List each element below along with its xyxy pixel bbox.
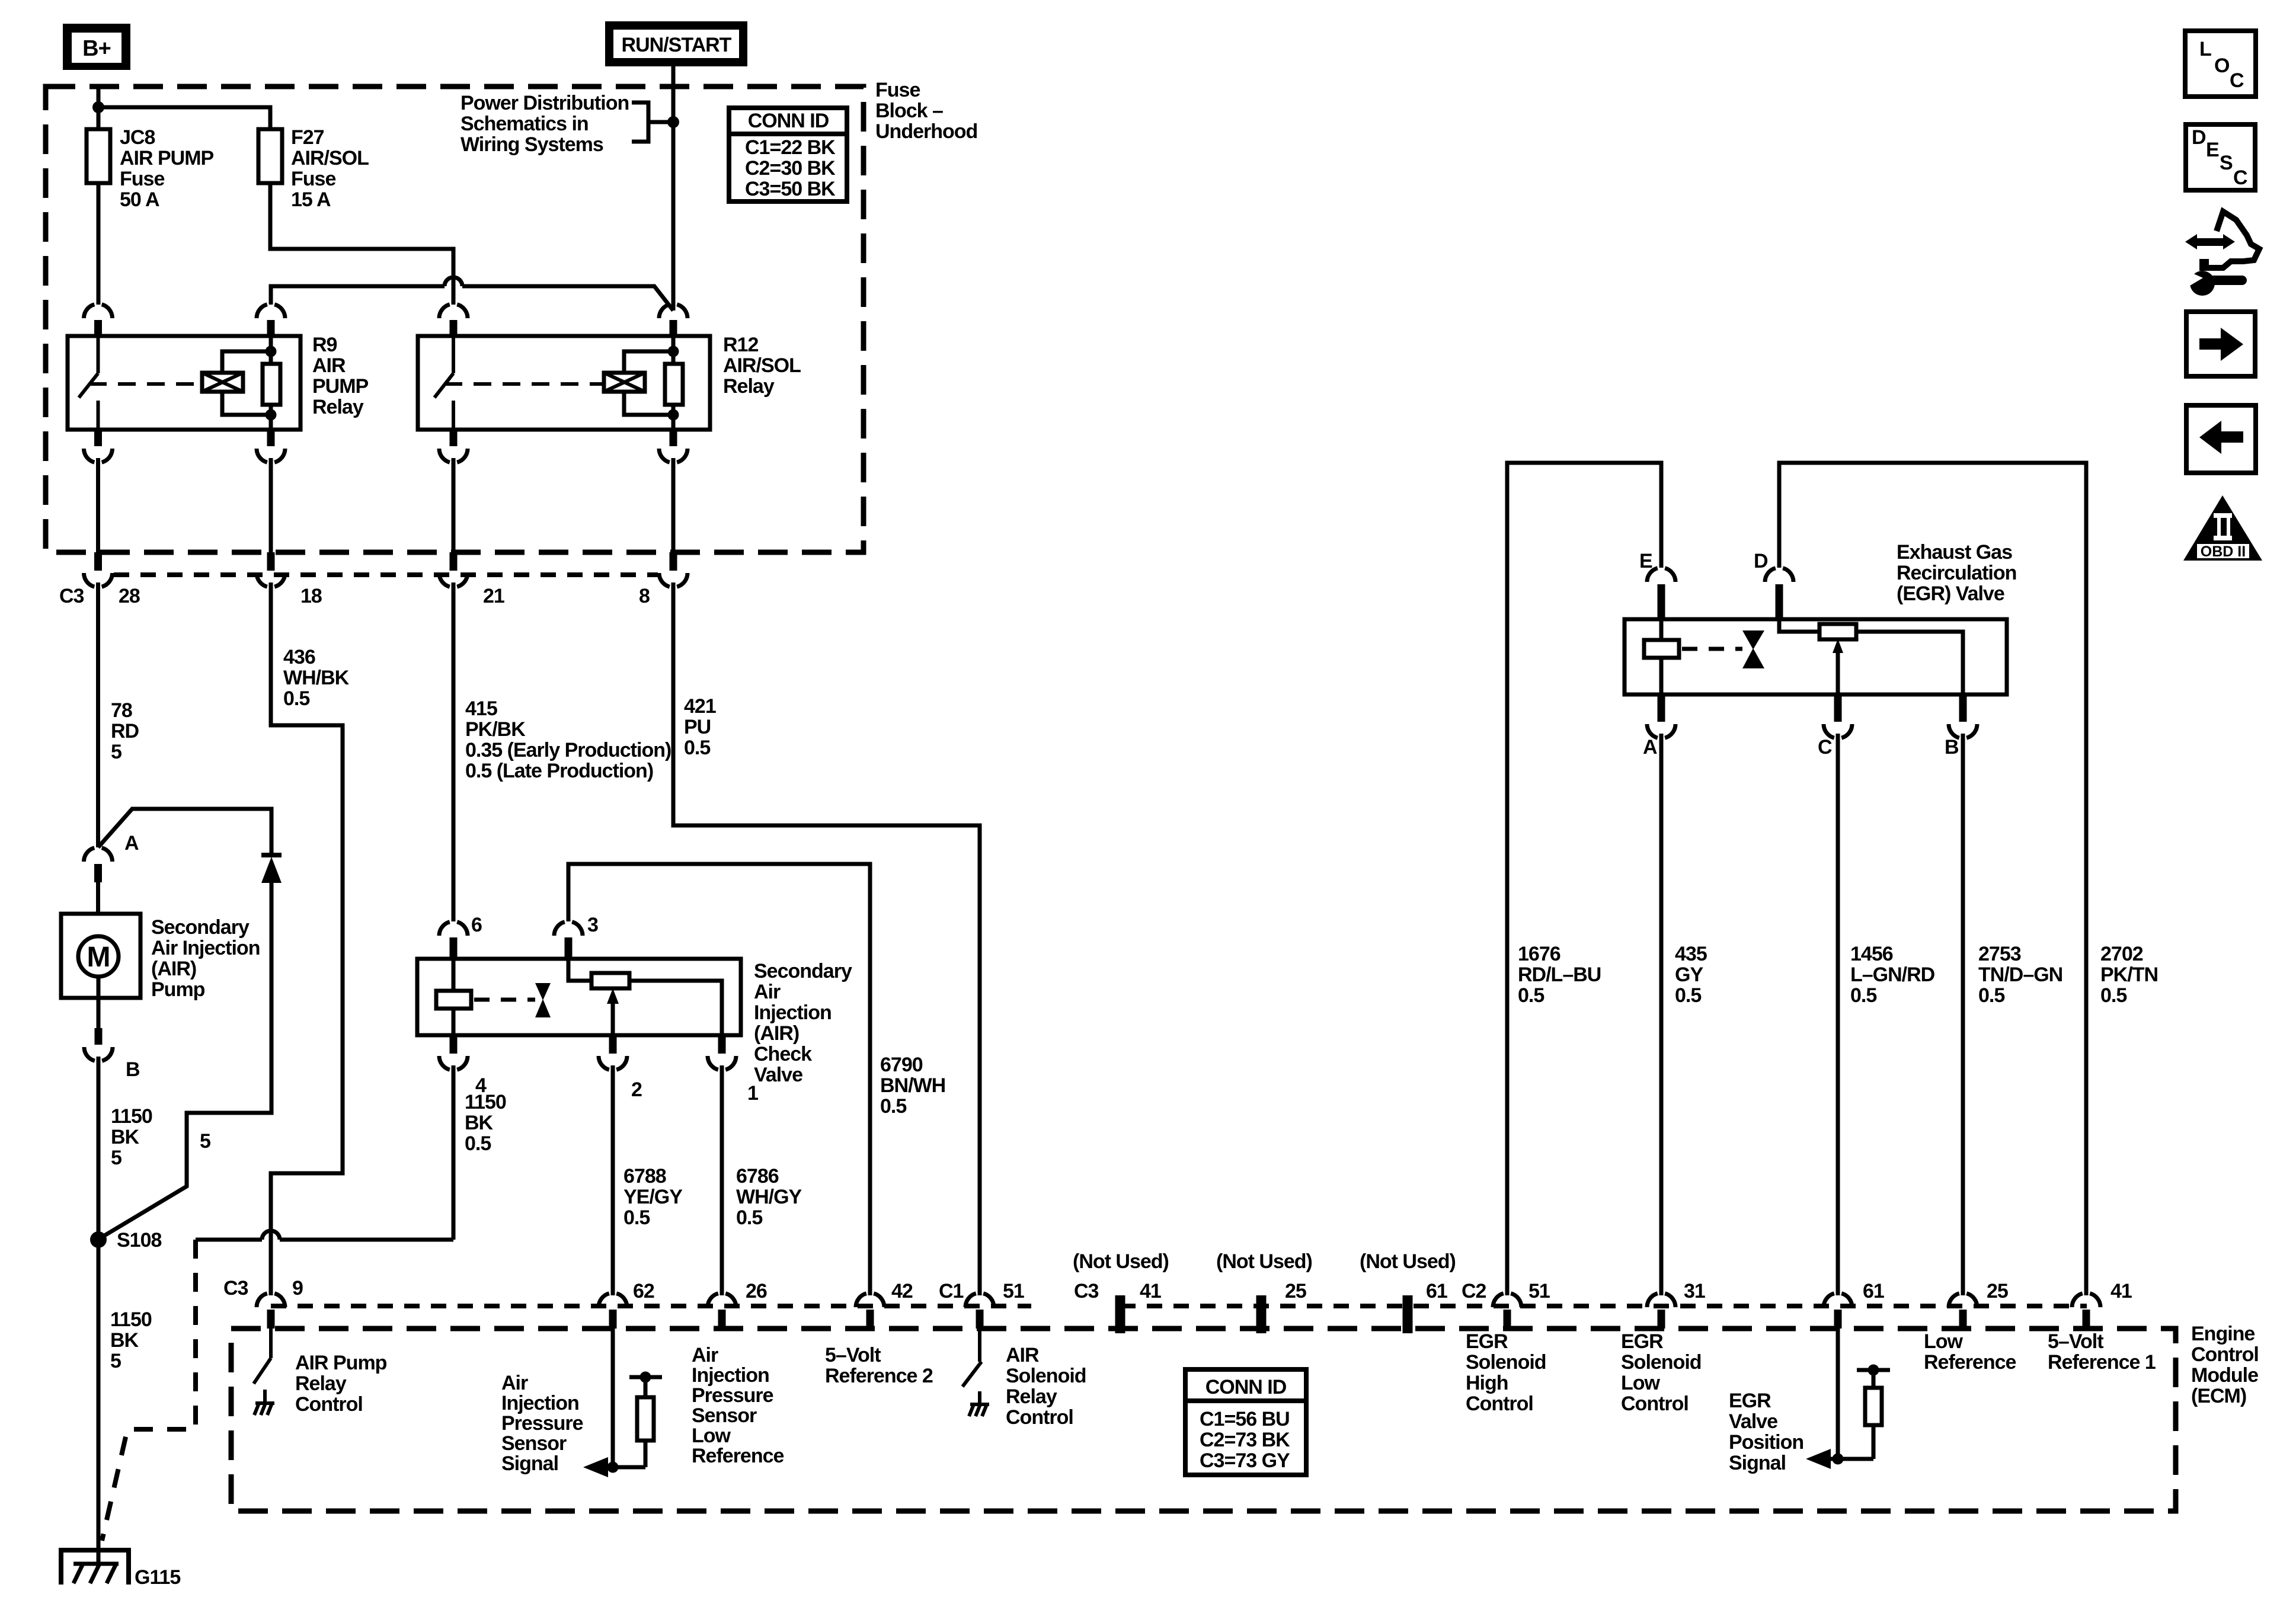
wire B+ to JC8 [97, 107, 101, 129]
ECM pin 31 [1647, 1294, 1675, 1329]
svg-text:YE/GY: YE/GY [623, 1186, 683, 1208]
ECM pressure sensor input network [583, 1329, 662, 1477]
svg-text:PK/TN: PK/TN [2100, 964, 2158, 986]
C3 row pin 28 [84, 552, 113, 587]
label wire 1456 L-GN/RD [1850, 943, 1935, 1007]
R9 coil top pin connector [257, 305, 285, 318]
svg-text:Control: Control [1621, 1393, 1689, 1415]
ECM pin C3 9 [257, 1294, 285, 1329]
svg-text:Reference: Reference [692, 1445, 784, 1467]
R9 actuator dashed link [89, 382, 200, 386]
svg-text:Air: Air [501, 1372, 528, 1394]
label F27 fuse [291, 126, 369, 211]
svg-text:Relay: Relay [312, 396, 364, 418]
ECM EGR position sensor network [1806, 1329, 1890, 1469]
svg-text:B: B [126, 1058, 140, 1081]
svg-text:(Not Used): (Not Used) [1360, 1250, 1456, 1273]
svg-text:5: 5 [200, 1130, 210, 1153]
label EGR valve [1897, 541, 2016, 605]
svg-text:0.5: 0.5 [283, 687, 309, 710]
svg-text:C2=73 BK: C2=73 BK [1200, 1429, 1290, 1451]
icon scan tool wrench [2185, 212, 2259, 296]
R12 switch [434, 336, 453, 430]
svg-text:9: 9 [292, 1277, 303, 1299]
svg-text:31: 31 [1684, 1280, 1705, 1302]
svg-text:C3: C3 [1074, 1280, 1099, 1302]
svg-text:5: 5 [111, 741, 121, 763]
R12 coil element [604, 351, 673, 415]
label wire 2753 TN/D-GN [1978, 943, 2062, 1007]
power feed RUN/START [605, 21, 747, 66]
svg-text:Position: Position [1729, 1431, 1803, 1454]
svg-text:Injection: Injection [501, 1392, 579, 1414]
svg-text:PUMP: PUMP [312, 375, 369, 398]
svg-text:AIR: AIR [1006, 1344, 1039, 1366]
svg-text:RUN/START: RUN/START [622, 34, 732, 56]
label Secondary Air Injection Pump [151, 916, 260, 1001]
ECM air pump relay control switch [254, 1329, 274, 1415]
svg-text:61: 61 [1863, 1280, 1884, 1302]
ECM pin 26 [708, 1294, 736, 1329]
label EGR Valve Position Signal [1729, 1390, 1803, 1474]
svg-text:C2=30 BK: C2=30 BK [745, 157, 836, 180]
svg-text:Sensor: Sensor [692, 1404, 757, 1427]
svg-text:A: A [1643, 736, 1657, 758]
svg-text:L–GN/RD: L–GN/RD [1850, 964, 1935, 986]
svg-text:Reference 2: Reference 2 [825, 1365, 933, 1387]
svg-text:Engine: Engine [2191, 1323, 2255, 1345]
conn id table ECM [1185, 1369, 1306, 1475]
svg-text:Solenoid: Solenoid [1621, 1351, 1702, 1374]
node B+ junction [92, 101, 104, 113]
svg-text:D: D [2192, 126, 2206, 149]
label Air Injection Pressure Sensor Signal [501, 1372, 583, 1475]
svg-text:EGR: EGR [1621, 1330, 1663, 1353]
svg-text:28: 28 [119, 585, 140, 607]
svg-text:CONN ID: CONN ID [1205, 1376, 1287, 1398]
svg-text:15 A: 15 A [291, 188, 331, 211]
svg-text:(Not Used): (Not Used) [1216, 1250, 1312, 1273]
R9 switch top pin connector [84, 305, 113, 318]
valve pin 4 connector [439, 1035, 468, 1240]
svg-text:Air Injection: Air Injection [151, 937, 260, 959]
C3 connector row dotted line [114, 572, 658, 577]
svg-text:Pressure: Pressure [692, 1384, 773, 1407]
svg-text:C1=22 BK: C1=22 BK [745, 136, 836, 159]
svg-text:1150: 1150 [111, 1105, 152, 1128]
ECM dashed box [231, 1329, 2176, 1511]
label wire 421 PU 0.5 [684, 695, 716, 759]
diode CR [261, 855, 282, 883]
valve actuator dashes [474, 998, 535, 1002]
svg-text:C2: C2 [1462, 1280, 1486, 1302]
EGR valve box [1625, 619, 2007, 694]
svg-text:435: 435 [1675, 943, 1707, 965]
svg-text:C3: C3 [59, 585, 84, 607]
valve symbol bowtie [535, 983, 551, 1017]
svg-text:GY: GY [1675, 964, 1703, 986]
svg-text:RD: RD [111, 720, 139, 742]
svg-text:AIR/SOL: AIR/SOL [723, 354, 801, 377]
wire RUN/START to R12 coil [671, 122, 676, 311]
svg-text:WH/BK: WH/BK [283, 667, 350, 689]
svg-text:C3: C3 [223, 1277, 248, 1299]
svg-text:Fuse: Fuse [875, 79, 920, 101]
svg-text:Fuse: Fuse [291, 168, 335, 190]
C3 row pin 21 [439, 552, 468, 587]
svg-text:(Not Used): (Not Used) [1073, 1250, 1169, 1273]
R9 coil resistor [263, 336, 280, 430]
svg-text:21: 21 [483, 585, 504, 607]
svg-text:Fuse: Fuse [120, 168, 164, 190]
svg-text:AIR/SOL: AIR/SOL [291, 147, 369, 169]
label R12 relay [723, 334, 801, 398]
wire 6790 from pin 3 [568, 864, 870, 1295]
label wire 6788 YE/GY 0.5 [623, 1165, 683, 1229]
label wire 436 WH/BK 0.5 [283, 646, 350, 710]
svg-text:(AIR): (AIR) [151, 958, 196, 980]
svg-text:Injection: Injection [754, 1001, 832, 1024]
svg-text:CONN ID: CONN ID [748, 110, 829, 132]
svg-text:BK: BK [111, 1126, 140, 1148]
wire F27 to R12 switch [270, 183, 453, 305]
svg-text:RD/L–BU: RD/L–BU [1518, 964, 1601, 986]
svg-text:415: 415 [465, 697, 497, 720]
svg-text:Schematics in: Schematics in [461, 113, 589, 135]
svg-text:6790: 6790 [880, 1054, 923, 1076]
ECM pin 41 [2072, 1294, 2100, 1329]
svg-text:0.35 (Early Production): 0.35 (Early Production) [465, 739, 671, 761]
svg-text:R9: R9 [312, 334, 337, 356]
motor M circle [78, 936, 119, 977]
icon LOC box [2185, 31, 2256, 97]
label wire 1150 BK 5 upper [111, 1105, 152, 1169]
svg-text:0.5: 0.5 [465, 1132, 491, 1155]
svg-text:Module: Module [2191, 1364, 2258, 1387]
svg-text:B: B [1945, 736, 1959, 758]
EGR pin E connector [1647, 568, 1675, 619]
conn id table fuse block [729, 108, 847, 201]
AIR pump motor box [61, 914, 140, 998]
ECM connector dotted row right [1120, 1304, 2087, 1308]
svg-text:6788: 6788 [623, 1165, 666, 1188]
svg-text:Relay: Relay [295, 1372, 347, 1395]
EGR pin C connector [1824, 694, 1852, 1295]
R12 switch top pin connector [439, 305, 468, 318]
svg-text:C1=56 BU: C1=56 BU [1200, 1408, 1290, 1430]
icon OBD II triangle [2183, 495, 2262, 561]
svg-text:26: 26 [746, 1280, 767, 1302]
svg-text:AIR PUMP: AIR PUMP [120, 147, 214, 169]
label 5-Volt Reference 1 [2048, 1330, 2156, 1374]
svg-text:2753: 2753 [1978, 943, 2021, 965]
svg-text:E: E [1639, 550, 1652, 572]
label AIR Solenoid Relay Control [1006, 1344, 1086, 1429]
svg-text:0.5: 0.5 [1978, 984, 2004, 1007]
svg-text:2: 2 [631, 1078, 642, 1101]
svg-text:AIR Pump: AIR Pump [295, 1352, 387, 1374]
svg-text:AIR: AIR [312, 354, 346, 377]
svg-text:25: 25 [1285, 1280, 1306, 1302]
svg-text:BK: BK [110, 1329, 139, 1352]
svg-text:B+: B+ [82, 36, 111, 61]
svg-text:(AIR): (AIR) [754, 1022, 799, 1045]
svg-text:(EGR) Valve: (EGR) Valve [1897, 582, 2004, 605]
label Power Distribution note [461, 92, 629, 156]
label wire 1676 RD/L-BU [1518, 943, 1601, 1007]
svg-text:62: 62 [633, 1280, 654, 1302]
label EGR Solenoid High Control [1466, 1330, 1546, 1415]
svg-text:PK/BK: PK/BK [465, 718, 526, 741]
fuse block underhood dashed box [46, 87, 864, 552]
wires relays to C3 connector row [98, 458, 674, 555]
R9 bottom pin connectors [84, 430, 286, 462]
svg-text:42: 42 [891, 1280, 913, 1302]
svg-text:0.5: 0.5 [1675, 984, 1701, 1007]
label Air Injection Pressure Sensor Low Reference [692, 1344, 784, 1467]
relay R9 box [68, 336, 300, 430]
svg-text:8: 8 [639, 585, 650, 607]
EGR pin B connector [1949, 694, 1977, 1295]
wire B+ to F27 [98, 107, 270, 129]
label AIR Pump Relay Control [295, 1352, 387, 1416]
valve wiper arrow [607, 988, 619, 1035]
ECM pin C1 51 [965, 1294, 994, 1329]
label Low Reference [1924, 1330, 2016, 1374]
svg-text:5: 5 [110, 1350, 121, 1372]
svg-text:Reference 1: Reference 1 [2048, 1351, 2156, 1374]
R12 coil resistor [665, 336, 683, 430]
node RUN/START junction [667, 116, 679, 128]
C3 row pin 18 [257, 552, 285, 587]
label wire 78 RD 5 [111, 699, 139, 763]
svg-text:BN/WH: BN/WH [880, 1074, 945, 1097]
wire B+ stub [97, 87, 101, 107]
fuse JC8 [87, 129, 110, 183]
svg-text:6: 6 [471, 914, 482, 936]
svg-text:0.5: 0.5 [684, 737, 710, 759]
svg-text:Low: Low [692, 1425, 731, 1447]
svg-text:Block –: Block – [875, 100, 943, 122]
svg-text:Control: Control [1006, 1406, 1073, 1429]
wire 78 RD [96, 582, 100, 847]
bracket for power distribution note [632, 103, 673, 142]
svg-text:Injection: Injection [692, 1364, 769, 1387]
svg-text:F27: F27 [291, 126, 324, 149]
svg-text:1676: 1676 [1518, 943, 1560, 965]
icon DESC box [2186, 124, 2255, 190]
svg-text:0.5: 0.5 [1518, 984, 1544, 1007]
svg-text:C3=50 BK: C3=50 BK [745, 178, 836, 200]
svg-text:Underhood: Underhood [875, 120, 977, 143]
svg-text:C1: C1 [939, 1280, 964, 1302]
svg-text:WH/GY: WH/GY [736, 1186, 802, 1208]
label wire 1150 BK 5 lower [110, 1308, 152, 1372]
ECM pin 25 [1949, 1294, 1977, 1329]
pump pin A connector [84, 848, 113, 914]
svg-text:Signal: Signal [1729, 1452, 1786, 1474]
ECM not used stub 61 [1403, 1295, 1413, 1333]
labels C3 row [59, 585, 650, 607]
svg-text:421: 421 [684, 695, 716, 718]
svg-text:18: 18 [300, 585, 322, 607]
svg-text:Secondary: Secondary [754, 960, 852, 982]
wire valve pin4 ground link with hop [196, 1231, 453, 1240]
svg-text:S: S [2220, 152, 2233, 174]
pump pin B connector [84, 1028, 113, 1061]
svg-text:Signal: Signal [501, 1452, 558, 1475]
svg-text:M: M [87, 942, 110, 973]
wire 421 PU [673, 582, 980, 1295]
svg-text:D: D [1754, 550, 1768, 572]
svg-text:51: 51 [1528, 1280, 1550, 1302]
R12 coil top pin connector [659, 305, 687, 318]
ECM not used stub C3 41 [1115, 1295, 1125, 1333]
wire 415 PK/BK [452, 582, 456, 921]
wire RUN/START down [671, 66, 676, 122]
svg-text:OBD II: OBD II [2201, 543, 2246, 560]
svg-text:0.5: 0.5 [880, 1095, 906, 1118]
EGR pin A connector [1647, 694, 1675, 1295]
svg-text:Power Distribution: Power Distribution [461, 92, 629, 114]
svg-text:Exhaust Gas: Exhaust Gas [1897, 541, 2012, 564]
svg-text:5–Volt: 5–Volt [2048, 1330, 2103, 1353]
svg-text:G115: G115 [135, 1566, 180, 1589]
R9 switch [79, 336, 98, 430]
EGR actuator dashes [1682, 647, 1742, 651]
svg-text:Air: Air [692, 1344, 718, 1366]
ECM pin 42 [856, 1294, 884, 1329]
relay R12 box [418, 336, 710, 430]
svg-text:2702: 2702 [2100, 943, 2143, 965]
svg-text:1150: 1150 [110, 1308, 152, 1331]
svg-text:51: 51 [1003, 1280, 1024, 1302]
wire diode branch top [98, 809, 272, 855]
svg-text:High: High [1466, 1372, 1508, 1394]
svg-text:41: 41 [1140, 1280, 1161, 1302]
valve pin 6 connector [439, 922, 468, 959]
svg-text:Check: Check [754, 1043, 812, 1065]
svg-text:0.5 (Late Production): 0.5 (Late Production) [465, 760, 653, 782]
svg-text:JC8: JC8 [120, 126, 155, 149]
svg-text:BK: BK [465, 1112, 494, 1134]
label R9 relay [312, 334, 369, 418]
svg-text:EGR: EGR [1466, 1330, 1508, 1353]
svg-text:61: 61 [1426, 1280, 1447, 1302]
valve solenoid coil [436, 959, 471, 1035]
R12 bottom pin connectors [439, 430, 687, 462]
wire 436 WH/BK [271, 582, 343, 1295]
svg-text:C: C [1818, 736, 1832, 758]
svg-text:O: O [2214, 55, 2230, 77]
svg-text:A: A [124, 832, 139, 854]
label wire 415 PK/BK [465, 697, 671, 782]
svg-text:EGR: EGR [1729, 1390, 1771, 1412]
ECM pin C2 51 [1493, 1294, 1521, 1329]
svg-text:Low: Low [1924, 1330, 1964, 1353]
svg-text:0.5: 0.5 [736, 1206, 762, 1229]
fuse F27 [258, 129, 282, 183]
svg-text:1150: 1150 [465, 1091, 506, 1113]
svg-text:Valve: Valve [754, 1064, 802, 1086]
wire run/start branch to R9 coil with hop [271, 277, 673, 311]
svg-text:1456: 1456 [1850, 943, 1893, 965]
R9 coil element [202, 351, 271, 415]
svg-text:41: 41 [2110, 1280, 2132, 1302]
svg-text:Sensor: Sensor [501, 1432, 567, 1455]
wire JC8 to R9 switch [97, 183, 101, 305]
svg-text:E: E [2206, 139, 2219, 161]
svg-text:Air: Air [754, 981, 781, 1003]
svg-text:5: 5 [111, 1147, 121, 1169]
R12 actuator dashed link [445, 382, 602, 386]
svg-text:436: 436 [283, 646, 315, 668]
svg-text:Solenoid: Solenoid [1466, 1351, 1546, 1374]
valve position sensor resistor [568, 959, 722, 1035]
label wire 6790 BN/WH 0.5 [880, 1054, 945, 1118]
label JC8 fuse [120, 126, 214, 211]
valve pin 3 connector [554, 922, 583, 959]
svg-text:Wiring Systems: Wiring Systems [461, 133, 603, 156]
ECM not used stub 25 [1256, 1295, 1267, 1333]
ECM pin 62 [599, 1294, 627, 1329]
wire S108 to G115 [97, 1240, 101, 1564]
svg-text:3: 3 [587, 914, 598, 936]
label wire 6786 WH/GY 0.5 [736, 1165, 802, 1229]
svg-text:50 A: 50 A [120, 188, 159, 211]
svg-text:0.5: 0.5 [623, 1206, 650, 1229]
EGR valve bowtie [1742, 630, 1764, 668]
svg-text:Relay: Relay [723, 375, 775, 398]
label 5-Volt Reference 2 [825, 1344, 933, 1387]
svg-text:C: C [2230, 69, 2244, 92]
svg-text:Pump: Pump [151, 978, 205, 1001]
svg-text:0.5: 0.5 [2100, 984, 2126, 1007]
EGR wiper arrow [1833, 639, 1843, 694]
svg-text:TN/D–GN: TN/D–GN [1978, 964, 2062, 986]
svg-text:Pressure: Pressure [501, 1412, 583, 1435]
svg-text:Valve: Valve [1729, 1410, 1777, 1433]
valve pin 2 connector [599, 1035, 627, 1295]
svg-text:6786: 6786 [736, 1165, 779, 1188]
svg-text:Control: Control [1466, 1393, 1533, 1415]
svg-text:C: C [2233, 167, 2247, 189]
ECM connector dotted row left [271, 1304, 1031, 1308]
icon arrow left box [2186, 405, 2256, 473]
wire motor to pin B [97, 977, 101, 1028]
ground G115 [61, 1548, 129, 1585]
ECM pin 61 [1824, 1294, 1852, 1329]
svg-text:Control: Control [295, 1393, 363, 1416]
splice S108 [90, 1231, 107, 1248]
power feed B+ [63, 24, 130, 70]
svg-text:Secondary: Secondary [151, 916, 250, 939]
svg-text:5–Volt: 5–Volt [825, 1344, 881, 1366]
svg-text:S108: S108 [117, 1229, 161, 1251]
EGR pin D connector [1765, 568, 1793, 619]
EGR solenoid coil [1644, 619, 1679, 694]
svg-text:(ECM): (ECM) [2191, 1385, 2246, 1407]
label EGR Solenoid Low Control [1621, 1330, 1702, 1415]
svg-text:25: 25 [1987, 1280, 2008, 1302]
svg-text:0.5: 0.5 [1850, 984, 1876, 1007]
EGR valve wires top [1507, 463, 2086, 1295]
label Fuse Block Underhood [875, 79, 977, 143]
svg-text:R12: R12 [723, 334, 758, 356]
svg-text:Control: Control [2191, 1343, 2259, 1366]
C3 row pin 8 [659, 552, 687, 587]
dashed ground routing to G115 [102, 1240, 196, 1541]
